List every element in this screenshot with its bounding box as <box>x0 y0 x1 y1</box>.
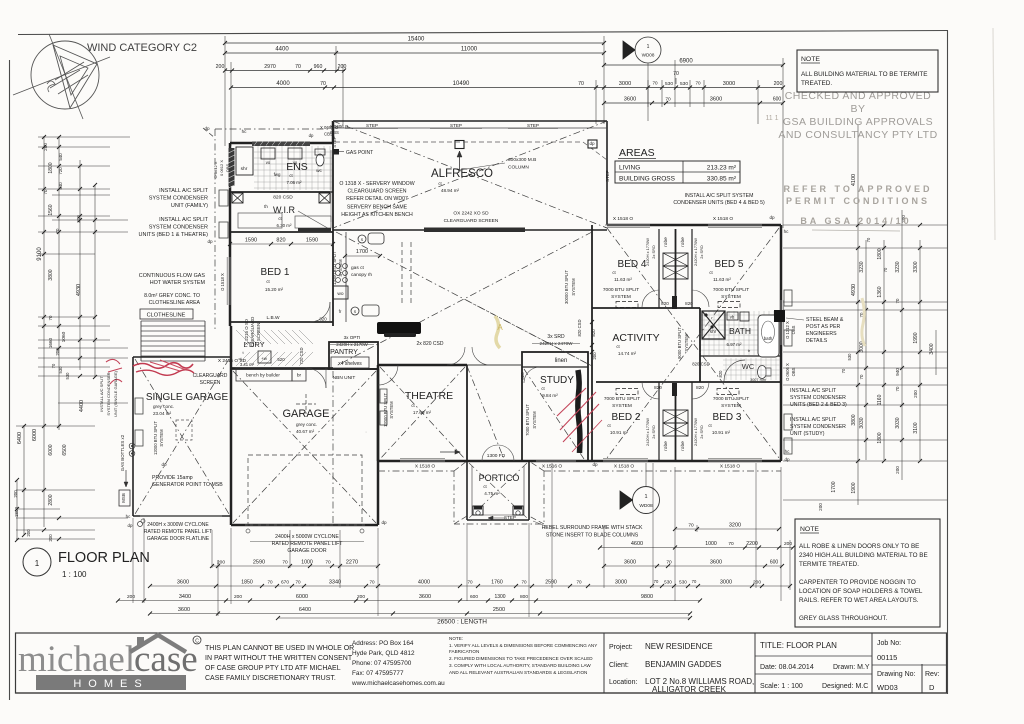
svg-text:200: 200 <box>592 352 597 360</box>
svg-text:dp: dp <box>204 126 210 131</box>
svg-text:48.94 m²: 48.94 m² <box>441 188 460 193</box>
floor plan title circle <box>23 548 51 576</box>
ldry trough w <box>258 351 271 363</box>
svg-text:SYSTEM: SYSTEM <box>721 403 741 409</box>
svg-text:4400: 4400 <box>79 400 85 412</box>
wall ens-wir-bed1 west <box>229 143 232 326</box>
svg-text:WC: WC <box>742 362 755 371</box>
ens vanity basins <box>261 148 275 159</box>
alfresco inner dashed line <box>335 141 583 143</box>
svg-text:GARAGE DOOR: GARAGE DOOR <box>287 548 326 554</box>
svg-text:L'DRY: L'DRY <box>243 340 264 349</box>
svg-text:300x300 M.B: 300x300 M.B <box>508 157 536 163</box>
svg-text:3600: 3600 <box>710 560 722 566</box>
door arc bed1 <box>310 302 330 322</box>
svg-text:200: 200 <box>76 215 81 223</box>
svg-text:O 0606 X: O 0606 X <box>785 363 790 381</box>
shower bath corner <box>702 311 725 339</box>
svg-text:7000 BTU SPLIT: 7000 BTU SPLIT <box>603 287 639 293</box>
garage centre cross <box>296 403 316 405</box>
svg-text:1800: 1800 <box>14 506 19 517</box>
svg-text:STEP: STEP <box>450 123 462 128</box>
svg-text:1300: 1300 <box>494 594 505 600</box>
svg-text:GREY GLASS THROUGHOUT.: GREY GLASS THROUGHOUT. <box>799 615 888 622</box>
svg-text:3000: 3000 <box>723 81 735 87</box>
svg-text:dp: dp <box>161 462 167 467</box>
svg-text:Date: 08.04.2014: Date: 08.04.2014 <box>760 664 814 671</box>
door arc bed4 <box>642 290 659 307</box>
door jamb bed45 <box>672 296 677 309</box>
svg-text:3600: 3600 <box>624 560 636 566</box>
svg-text:800: 800 <box>520 594 528 600</box>
svg-text:O 1518 X: O 1518 X <box>220 273 225 291</box>
svg-text:2420H x 1770W: 2420H x 1770W <box>645 418 650 446</box>
portico east wall <box>528 461 530 520</box>
svg-text:CONTINUOUS FLOW GAS: CONTINUOUS FLOW GAS <box>139 273 206 279</box>
svg-text:BY: BY <box>850 103 865 115</box>
svg-text:1590: 1590 <box>245 238 257 244</box>
alfresco step edge line <box>333 127 607 129</box>
svg-text:UNIT (FAMILY): UNIT (FAMILY) <box>171 203 208 209</box>
page left border <box>9 60 11 700</box>
red scribble single garage <box>133 363 193 369</box>
svg-text:1700: 1700 <box>356 249 368 255</box>
svg-text:th: th <box>264 204 268 209</box>
svg-text:CLOTHESLINE: CLOTHESLINE <box>147 313 186 319</box>
svg-text:GARAGE: GARAGE <box>282 408 329 420</box>
svg-text:11 1: 11 1 <box>765 115 778 122</box>
portico diagonal 2 <box>469 463 527 518</box>
note box bottom right <box>795 519 940 627</box>
kitchen sink <box>351 307 359 315</box>
svg-text:820 CSD: 820 CSD <box>692 362 709 367</box>
ens shower <box>236 147 253 175</box>
svg-text:Client:: Client: <box>609 662 629 669</box>
svg-text:WIND CATEGORY C2: WIND CATEGORY C2 <box>87 42 197 54</box>
svg-text:NBN UNIT: NBN UNIT <box>333 375 356 381</box>
wall alfresco north screen <box>333 120 607 122</box>
garage door opening <box>245 524 365 526</box>
portico inner lines <box>471 466 473 515</box>
svg-text:TERMITE TREATED.: TERMITE TREATED. <box>799 561 859 568</box>
svg-text:BED 4: BED 4 <box>618 259 647 270</box>
svg-text:2400H x 5000W CYCLONE: 2400H x 5000W CYCLONE <box>275 534 339 540</box>
garage diagonal 2 <box>233 371 376 523</box>
svg-text:70: 70 <box>267 580 273 585</box>
svg-text:1800: 1800 <box>877 248 883 259</box>
svg-text:SCREEN: SCREEN <box>200 380 221 386</box>
svg-text:HEBEL SURROUND FRAME WITH STAC: HEBEL SURROUND FRAME WITH STACK <box>542 525 643 531</box>
areas table box <box>615 161 740 183</box>
svg-text:STEP: STEP <box>366 123 378 128</box>
svg-text:Hyde Park, QLD 4812: Hyde Park, QLD 4812 <box>352 650 415 657</box>
svg-text:1900: 1900 <box>851 482 857 493</box>
right dim ticks <box>856 223 860 227</box>
svg-text:2970: 2970 <box>264 64 276 70</box>
svg-text:70: 70 <box>688 523 694 529</box>
hall diagonal <box>467 366 504 459</box>
svg-text:wc: wc <box>316 169 322 174</box>
svg-text:LIVING: LIVING <box>619 165 640 172</box>
svg-text:70: 70 <box>48 315 53 320</box>
servery dark band <box>424 228 525 233</box>
svg-text:Location:: Location: <box>609 679 637 686</box>
wall single garage south <box>133 515 231 517</box>
svg-text:70: 70 <box>859 374 864 379</box>
svg-text:shr: shr <box>241 166 248 172</box>
door arc ldry <box>306 368 326 388</box>
svg-text:200: 200 <box>127 594 135 600</box>
theatre arrow <box>440 451 460 453</box>
svg-text:Phone: 07 47595700: Phone: 07 47595700 <box>352 660 412 667</box>
svg-text:SYSTEM: SYSTEM <box>389 401 394 419</box>
door arc bed2 <box>642 382 659 399</box>
svg-text:BUILDING GROSS: BUILDING GROSS <box>619 176 676 183</box>
svg-text:200: 200 <box>357 594 365 600</box>
alfresco west window band <box>330 150 332 222</box>
wall bed wing south <box>378 460 781 463</box>
svg-text:SINGLE GARAGE: SINGLE GARAGE <box>146 392 229 403</box>
wall activity-bed2 divider <box>596 381 781 383</box>
svg-text:70: 70 <box>692 579 697 584</box>
svg-text:bath: bath <box>764 336 773 341</box>
svg-text:POST AS PER: POST AS PER <box>806 324 840 330</box>
entry door arcs <box>482 445 498 461</box>
svg-text:STONE INSERT TO BLADE COLUMNS: STONE INSERT TO BLADE COLUMNS <box>546 533 639 539</box>
svg-text:200: 200 <box>784 541 792 547</box>
svg-text:grey conc.: grey conc. <box>296 422 317 427</box>
door arc bed5 <box>692 290 709 307</box>
svg-text:PANTRY: PANTRY <box>330 349 358 356</box>
svg-text:7000 BTU SPLIT: 7000 BTU SPLIT <box>713 287 749 293</box>
wall ens top <box>230 142 333 145</box>
svg-text:C: C <box>195 639 199 645</box>
door arc hall study <box>472 347 490 365</box>
svg-text:1660: 1660 <box>48 337 53 348</box>
svg-text:ALL BUILDING MATERIAL TO BE TE: ALL BUILDING MATERIAL TO BE TERMITE <box>801 71 928 78</box>
svg-text:530: 530 <box>680 81 688 87</box>
svg-text:200: 200 <box>55 348 60 356</box>
svg-text:70: 70 <box>43 189 48 194</box>
svg-text:BENJAMIN GADDES: BENJAMIN GADDES <box>645 660 721 669</box>
svg-text:6400: 6400 <box>17 432 23 444</box>
wall robe column bed2-3 <box>658 382 660 461</box>
svg-text:PORTICO: PORTICO <box>479 473 520 483</box>
svg-text:6000: 6000 <box>48 444 54 455</box>
wind rose diagonal line 2 <box>49 34 83 119</box>
window symbol WD08 top <box>635 37 661 63</box>
svg-text:D: D <box>929 683 935 692</box>
steel post black <box>774 310 785 322</box>
svg-text:70: 70 <box>295 580 301 585</box>
svg-text:X 1518 O: X 1518 O <box>614 464 635 470</box>
svg-text:INSTALL A/C SPLIT: INSTALL A/C SPLIT <box>790 417 837 423</box>
svg-text:6000: 6000 <box>32 429 38 441</box>
window symbol WD08 bottom <box>633 487 660 514</box>
wind rose circle <box>31 41 99 109</box>
svg-text:530: 530 <box>664 580 672 585</box>
left dim comb stubs <box>38 136 130 138</box>
svg-text:SYSTEM CONDENSER: SYSTEM CONDENSER <box>790 395 846 401</box>
svg-text:2x SRD: 2x SRD <box>699 425 704 439</box>
ens window band left wall <box>229 148 235 186</box>
bottom dim extension verticals <box>132 518 134 603</box>
wall ldry-pantry south <box>230 367 333 369</box>
svg-text:x4 shelves: x4 shelves <box>338 361 362 367</box>
wall garage south <box>231 524 378 527</box>
svg-text:S: S <box>361 237 364 242</box>
svg-text:820: 820 <box>276 238 285 244</box>
svg-text:SYSTEM CONDENSER: SYSTEM CONDENSER <box>149 225 208 231</box>
svg-text:3200: 3200 <box>729 523 741 529</box>
svg-text:X 1518 O: X 1518 O <box>613 216 634 222</box>
svg-text:STEP: STEP <box>504 515 516 520</box>
page top border <box>18 31 948 35</box>
mb column <box>455 141 464 149</box>
eave dashdot south <box>378 470 454 472</box>
svg-text:17.60 m²: 17.60 m² <box>413 410 432 415</box>
living ridge line <box>466 300 592 366</box>
ens wc pan <box>316 154 324 166</box>
study red marks <box>557 388 599 442</box>
svg-text:70: 70 <box>883 267 888 272</box>
svg-text:720 CSD: 720 CSD <box>299 348 304 365</box>
svg-text:1800: 1800 <box>48 162 54 173</box>
svg-text:INSTALL A/C SPLIT: INSTALL A/C SPLIT <box>159 217 209 223</box>
svg-text:BED 5: BED 5 <box>715 259 744 270</box>
svg-text:200: 200 <box>216 64 225 70</box>
svg-text:530: 530 <box>58 366 63 374</box>
svg-text:540: 540 <box>58 182 63 190</box>
svg-text:hc: hc <box>126 514 131 519</box>
svg-text:70: 70 <box>55 228 60 233</box>
svg-text:820: 820 <box>661 301 669 306</box>
svg-text:INSTALL A/C SPLIT SYSTEM: INSTALL A/C SPLIT SYSTEM <box>685 193 754 199</box>
svg-text:960: 960 <box>314 64 323 70</box>
bath tub <box>758 315 779 357</box>
svg-text:4400: 4400 <box>275 47 289 53</box>
svg-text:2270: 2270 <box>346 560 358 566</box>
wall living-alfresco screen <box>333 229 607 231</box>
svg-text:2590: 2590 <box>545 580 557 586</box>
svg-text:7000 BTU SPLIT: 7000 BTU SPLIT <box>713 396 749 402</box>
svg-text:00115: 00115 <box>877 653 897 662</box>
svg-text:14.74 m²: 14.74 m² <box>618 351 637 356</box>
window bedwing south 2 <box>708 460 762 462</box>
svg-text:MSB: MSB <box>121 493 126 503</box>
eave dashdot left block <box>215 128 333 130</box>
svg-text:70: 70 <box>666 560 672 566</box>
svg-text:+w: +w <box>261 356 268 361</box>
svg-text:9100: 9100 <box>37 247 43 261</box>
svg-text:1850: 1850 <box>241 580 253 586</box>
svg-text:robe: robe <box>680 441 686 451</box>
ldry hatch <box>236 330 250 344</box>
svg-text:820: 820 <box>520 372 525 380</box>
svg-text:OX 2242 XO SD: OX 2242 XO SD <box>453 211 489 217</box>
single garage diagonal 2 <box>135 359 229 514</box>
svg-text:26500 : LENGTH: 26500 : LENGTH <box>437 619 487 626</box>
svg-text:2420H x 1770W: 2420H x 1770W <box>693 238 698 266</box>
svg-text:70: 70 <box>665 97 671 103</box>
svg-text:200: 200 <box>234 594 242 600</box>
svg-text:10.91 m²: 10.91 m² <box>610 430 629 435</box>
svg-text:7.06 m²: 7.06 m² <box>287 180 302 185</box>
svg-text:200: 200 <box>26 529 31 537</box>
svg-text:520: 520 <box>277 357 285 362</box>
svg-text:INSTALL A/C SPLIT: INSTALL A/C SPLIT <box>99 376 104 412</box>
svg-text:ALL ROBE & LINEN DOORS ONLY TO: ALL ROBE & LINEN DOORS ONLY TO BE <box>799 543 919 550</box>
svg-text:540: 540 <box>58 153 63 161</box>
svg-text:wo: wo <box>337 292 343 297</box>
svg-text:robe: robe <box>663 237 669 247</box>
svg-text:gas ct: gas ct <box>351 265 364 271</box>
wall robe column bed4-5 <box>658 229 660 308</box>
svg-text:SYSTEM: SYSTEM <box>571 278 576 296</box>
wall garage east <box>377 369 380 525</box>
svg-text:Designed: M.C: Designed: M.C <box>822 683 868 690</box>
svg-text:SYSTEM: SYSTEM <box>159 429 164 447</box>
svg-text:2x SRD: 2x SRD <box>651 425 656 439</box>
svg-text:6.30 m²: 6.30 m² <box>277 223 292 228</box>
bottom dim row A right <box>604 565 782 567</box>
svg-text:11.63 m²: 11.63 m² <box>614 277 632 282</box>
condenser boxes garage left <box>135 398 143 414</box>
svg-text:PERMIT CONDITIONS: PERMIT CONDITIONS <box>786 196 930 206</box>
copyright symbol <box>193 636 201 644</box>
svg-text:4600: 4600 <box>631 541 643 547</box>
wall ens-wir divider <box>230 191 333 193</box>
svg-text:RATED REMOTE PANEL LIFT: RATED REMOTE PANEL LIFT <box>144 529 212 535</box>
svg-text:1360: 1360 <box>877 286 883 297</box>
svg-text:12000 BTU SPLIT: 12000 BTU SPLIT <box>153 421 158 455</box>
svg-text:2x SRD: 2x SRD <box>699 245 704 259</box>
svg-text:820 CSD: 820 CSD <box>577 320 582 337</box>
dim row 15400 <box>225 42 604 44</box>
door arc study <box>524 367 540 383</box>
wall theatre east <box>466 365 468 461</box>
ens floor tile grid <box>257 146 259 190</box>
svg-text:hc: hc <box>242 129 248 134</box>
svg-text:70: 70 <box>578 81 584 87</box>
single garage door opening <box>140 515 222 517</box>
svg-text:200: 200 <box>13 490 18 498</box>
wind rose arrow <box>53 45 97 108</box>
svg-text:CONDENSER UNITS (BED 4 & BED 5: CONDENSER UNITS (BED 4 & BED 5) <box>673 200 765 206</box>
svg-text:70: 70 <box>895 298 900 303</box>
bedwing diagonal 2 <box>607 228 779 458</box>
svg-text:INSTALL A/C SPLIT: INSTALL A/C SPLIT <box>790 388 837 394</box>
wir crossed box west <box>232 193 243 203</box>
svg-text:70: 70 <box>652 81 658 86</box>
svg-text:70: 70 <box>282 560 288 566</box>
page right border <box>947 31 949 695</box>
svg-text:O 1318 X - SERVERY WINDOW: O 1318 X - SERVERY WINDOW <box>339 181 414 187</box>
svg-text:6900: 6900 <box>679 59 693 65</box>
svg-text:2. FIGURED DIMENSIONS TO TAKE: 2. FIGURED DIMENSIONS TO TAKE PRECEDENCE… <box>449 656 593 661</box>
svg-text:canopy rh: canopy rh <box>351 272 372 278</box>
svg-text:www.michaelcasehomes.com.au: www.michaelcasehomes.com.au <box>351 680 445 687</box>
hall wall theatre to study <box>467 364 522 366</box>
svg-text:1: 1 <box>644 494 647 500</box>
svg-text:SYSTEM: SYSTEM <box>612 403 632 409</box>
wall east exterior <box>780 225 783 461</box>
svg-text:HOMES: HOMES <box>73 678 148 690</box>
bottom dim row B <box>150 585 790 587</box>
svg-text:4930: 4930 <box>851 284 857 296</box>
svg-text:530: 530 <box>679 580 687 585</box>
clothesline ladder <box>141 320 205 322</box>
svg-text:820 CSD: 820 CSD <box>273 195 293 201</box>
svg-text:9.84 m²: 9.84 m² <box>542 393 558 398</box>
svg-text:BA GSA 2014/10: BA GSA 2014/10 <box>800 216 911 226</box>
bottom dim row 4600 <box>600 547 793 549</box>
svg-text:michael: michael <box>18 639 135 680</box>
svg-text:CBS: CBS <box>330 130 339 135</box>
svg-text:NOTE: NOTE <box>800 526 819 533</box>
svg-text:2x 820 CSD: 2x 820 CSD <box>417 341 444 347</box>
portico south wall <box>467 519 529 521</box>
alfresco corner dp square <box>588 140 597 148</box>
theatre diagonal 1 <box>380 367 465 459</box>
svg-text:3007 mm: 3007 mm <box>750 378 766 382</box>
svg-text:3030: 3030 <box>859 417 865 428</box>
svg-text:820: 820 <box>685 301 693 306</box>
svg-text:bench by builder: bench by builder <box>246 373 280 378</box>
dim row 3600 70 3600 600 <box>604 102 783 104</box>
svg-text:3x SRD: 3x SRD <box>547 334 565 340</box>
svg-text:200: 200 <box>774 81 783 87</box>
bench by builder <box>236 368 292 381</box>
left dim ticks <box>42 135 46 139</box>
svg-text:WD08: WD08 <box>639 503 653 509</box>
bottom dim row D <box>150 613 690 615</box>
wall theatre west <box>377 365 380 461</box>
svg-text:70: 70 <box>695 81 701 86</box>
alfresco diagonal 2 <box>333 121 607 228</box>
svg-text:GARAGE DOOR FLATLINE: GARAGE DOOR FLATLINE <box>147 536 210 542</box>
portico diagonal 1 <box>469 463 527 518</box>
svg-text:LOCATION OF SOAP HOLDERS & TOW: LOCATION OF SOAP HOLDERS & TOWEL <box>799 588 923 595</box>
wall garage north <box>231 368 378 370</box>
portico canopy dashed outline <box>453 471 455 524</box>
logo homes bar <box>36 675 186 690</box>
svg-text:br: br <box>297 373 302 379</box>
svg-text:SYSTEM: SYSTEM <box>721 294 741 300</box>
wall linen divider <box>522 366 588 368</box>
svg-text:2500: 2500 <box>493 607 505 613</box>
svg-text:600: 600 <box>770 560 779 566</box>
svg-text:820: 820 <box>654 385 662 390</box>
svg-text:CLEARGUARD: CLEARGUARD <box>193 373 228 379</box>
svg-text:15400: 15400 <box>408 37 425 43</box>
svg-text:SYSTEM CONDENSER: SYSTEM CONDENSER <box>106 372 111 415</box>
svg-text:7000 BTU SPLIT: 7000 BTU SPLIT <box>604 396 640 402</box>
svg-text:720: 720 <box>58 167 63 175</box>
svg-text:200: 200 <box>338 64 347 70</box>
bottom dim row C <box>118 600 700 602</box>
portico west wall <box>466 461 468 520</box>
svg-text:70: 70 <box>895 386 900 391</box>
svg-text:CASE FAMILY DISCRETIONARY TRUS: CASE FAMILY DISCRETIONARY TRUST. <box>205 675 336 682</box>
wc tile grid <box>725 358 727 380</box>
svg-text:530: 530 <box>847 353 852 361</box>
garage door dashed outline <box>248 455 362 525</box>
wall pantry box <box>329 342 378 369</box>
svg-text:BED 1: BED 1 <box>261 267 290 278</box>
top dim extension lines <box>224 36 226 146</box>
svg-text:2800: 2800 <box>48 494 54 505</box>
